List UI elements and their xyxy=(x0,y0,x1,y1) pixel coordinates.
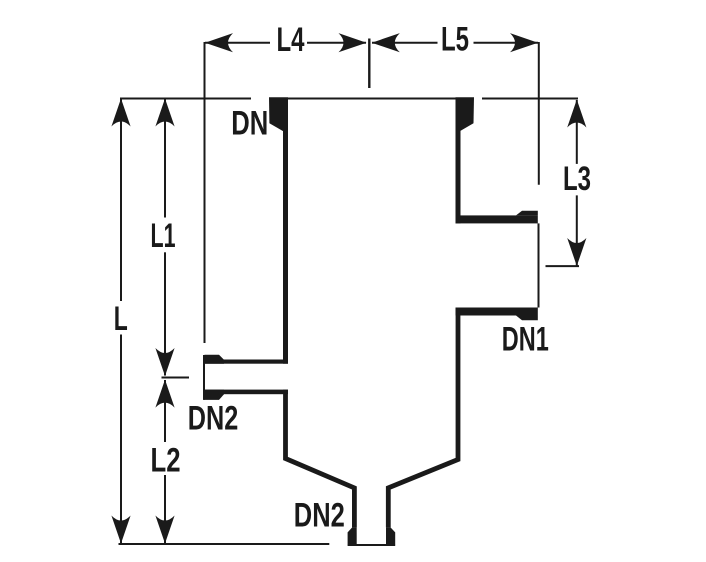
vessel left top flange (weld end) xyxy=(269,97,288,131)
tick extension at DN2 port centerline xyxy=(162,377,190,379)
dimension line L3 (vertical x=576.8) xyxy=(576,100,578,266)
vessel left wall lower + cone left + drain left wall xyxy=(286,390,355,528)
DN2 left port top wall xyxy=(205,360,289,364)
svg-text:DN: DN xyxy=(231,104,268,142)
vessel left wall upper xyxy=(283,128,288,364)
svg-text:L1: L1 xyxy=(151,217,176,255)
svg-text:DN2: DN2 xyxy=(188,400,239,438)
DN2 left port bottom flange block xyxy=(205,390,225,400)
vessel right top flange (weld end) xyxy=(456,97,475,131)
svg-text:DN2: DN2 xyxy=(294,497,345,535)
arrow L1 top xyxy=(155,99,174,127)
arrow L2 top xyxy=(155,380,174,408)
arrow L4 left xyxy=(205,33,233,52)
vessel right wall upper xyxy=(456,128,461,223)
DN2 left port top flange block xyxy=(205,355,225,364)
dimension line L (vertical x=121) xyxy=(120,99,122,543)
svg-text:L: L xyxy=(114,300,128,338)
arrow L bottom xyxy=(111,516,130,544)
arrow L3 bottom xyxy=(567,238,586,266)
DN2 left port end face line xyxy=(203,355,205,400)
drain right foot xyxy=(386,527,395,544)
svg-text:L2: L2 xyxy=(151,442,181,480)
arrow L2 bottom xyxy=(155,516,174,544)
arrow L5 left xyxy=(372,33,400,52)
svg-text:L4: L4 xyxy=(277,21,305,59)
dimension line L1 (vertical x=165) xyxy=(164,99,166,376)
vessel right wall lower + cone right + drain right wall xyxy=(388,308,458,528)
DN1 port bottom wall xyxy=(456,308,538,316)
DN1 port bottom weld bead xyxy=(516,316,538,321)
horizontal dimension line L5 (y=42.7) xyxy=(372,42,538,44)
DN1 port end face line xyxy=(538,223,540,307)
DN1 port top wall xyxy=(456,215,538,223)
extension line at DN1 port centerline (y=266.1) xyxy=(546,265,580,267)
dimension extension line top right (y=98.5) xyxy=(482,98,578,100)
extension line right of L5 (x=538.8) xyxy=(538,42,540,185)
DN2 left port bottom wall xyxy=(205,390,289,395)
bottom extension line (y=544) xyxy=(119,543,330,545)
center tick between L4 and L5 xyxy=(368,39,370,89)
extension line left of L4 (x=204.5) xyxy=(204,42,206,343)
svg-text:DN1: DN1 xyxy=(502,321,549,359)
horizontal dimension line L4 (y=42.7) xyxy=(205,42,366,44)
arrow L top xyxy=(111,99,130,127)
drain left foot xyxy=(348,527,357,544)
drain end face line xyxy=(348,544,396,546)
arrow L3 top xyxy=(567,100,586,128)
vessel top opening face line xyxy=(288,98,456,100)
DN1 port top weld bead xyxy=(516,211,538,216)
dimension extension line top left (y=98.5) xyxy=(120,98,251,100)
arrow L4 right xyxy=(339,33,367,52)
dimension line L2 (vertical x=165) xyxy=(164,380,166,543)
svg-text:L3: L3 xyxy=(563,160,591,198)
svg-text:L5: L5 xyxy=(441,21,469,59)
arrow L5 right xyxy=(510,33,538,52)
arrow L1 bottom xyxy=(155,348,174,376)
